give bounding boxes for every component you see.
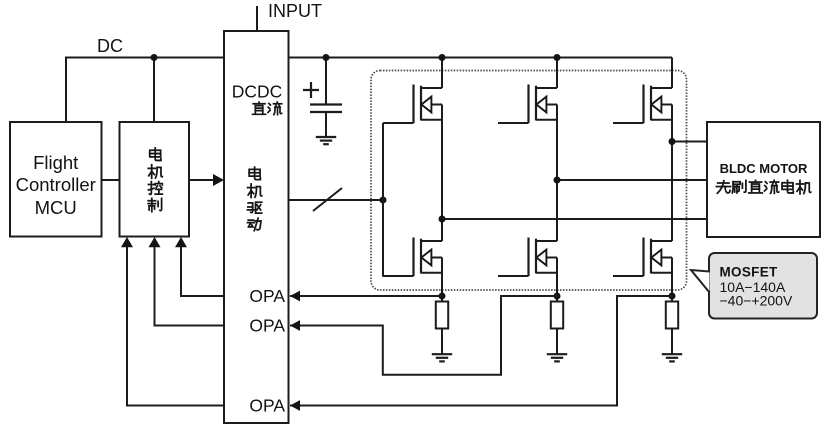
- wire drain lead bridge Q1: [441, 58, 443, 89]
- ground (R2): [547, 353, 567, 355]
- block DCDC / motor drive column: [224, 31, 289, 423]
- svg-text:DC: DC: [97, 36, 123, 56]
- transistor Q5 (low side): [536, 240, 557, 242]
- wire Q6 source to shunt: [671, 258, 673, 302]
- wire half-bridge midpoint Q2/Q5: [556, 105, 558, 242]
- wire DC rail left (net DC): [66, 58, 224, 123]
- wire R1 to ground: [441, 329, 443, 354]
- resistor R3 (shunt): [666, 302, 678, 329]
- dashed enclosure (MOSFET bridge outline): [371, 71, 687, 291]
- capacitor C1 plates: [310, 105, 342, 113]
- junction dot phase tap: [669, 138, 676, 145]
- wire OPA2 feedback to controller: [155, 239, 225, 326]
- wire gate drive bus from 电机驱动: [289, 199, 384, 201]
- wire phase output to motor: [672, 141, 707, 143]
- bus slash mark: [313, 188, 342, 211]
- junction dot current-sense node: [669, 293, 676, 300]
- block motor control 电机控制: [120, 122, 190, 237]
- svg-text:OPA: OPA: [249, 396, 285, 416]
- transistor Q2 (high side): [536, 87, 557, 89]
- svg-text:MCU: MCU: [35, 197, 77, 218]
- ground (R3): [662, 353, 682, 355]
- resistor R2 (shunt): [551, 302, 563, 329]
- wire OPA1 sense line: [290, 295, 442, 297]
- transistor Q3 (high side): [651, 87, 672, 89]
- svg-text:BLDC MOTOR: BLDC MOTOR: [720, 161, 808, 176]
- wire half-bridge midpoint Q3/Q6: [671, 105, 673, 242]
- capacitor C1 polarity +: [303, 82, 319, 98]
- svg-text:Flight: Flight: [33, 152, 78, 173]
- wire branch to motor-control block: [153, 58, 155, 123]
- junction dot current-sense node: [554, 293, 561, 300]
- ground (R1): [432, 353, 452, 355]
- wire OPA2 sense line: [290, 296, 557, 375]
- wire DC bus top rail right: [289, 57, 673, 59]
- wire OPA1 feedback to controller: [181, 239, 224, 296]
- resistor R1 (shunt): [436, 302, 448, 329]
- junction dot DC rail / Q1: [439, 54, 446, 61]
- wire R3 to ground: [671, 329, 673, 354]
- wire motor-control to DCDC drive (arrow): [189, 179, 222, 181]
- svg-text:MOSFET: MOSFET: [720, 265, 779, 280]
- wire R2 to ground: [556, 329, 558, 354]
- svg-text:−40−+200V: −40−+200V: [720, 293, 793, 309]
- transistor Q6 (low side): [651, 240, 672, 242]
- wire INPUT stub: [256, 6, 258, 31]
- transistor Q4 (low side): [421, 240, 442, 242]
- svg-text:INPUT: INPUT: [268, 1, 322, 21]
- callout MOSFET ratings: [709, 253, 817, 319]
- block BLDC MOTOR: [707, 122, 820, 237]
- svg-text:OPA: OPA: [249, 286, 285, 306]
- wire drain lead bridge Q2: [556, 58, 558, 89]
- junction dot gate bus: [380, 197, 387, 204]
- wire MCU to motor-control link: [102, 179, 120, 181]
- svg-text:Controller: Controller: [16, 174, 96, 195]
- svg-text:DCDC: DCDC: [232, 82, 283, 102]
- wire Q5 source to shunt: [556, 258, 558, 302]
- wire phase output to motor: [557, 179, 707, 181]
- wire half-bridge midpoint Q1/Q4: [441, 105, 443, 242]
- wire phase output to motor: [442, 218, 707, 220]
- junction dot DC/motor-control: [151, 54, 158, 61]
- wire Q4 source to shunt: [441, 258, 443, 302]
- wire capacitor to ground: [325, 112, 327, 137]
- junction dot cap/DC rail: [323, 54, 330, 61]
- junction dot DC rail / Q2: [554, 54, 561, 61]
- wire gate bus vertical: [382, 123, 384, 277]
- wire capacitor feed: [325, 58, 327, 105]
- block Flight Controller MCU: [10, 122, 102, 237]
- transistor Q1 (high side): [421, 87, 442, 89]
- junction dot current-sense node: [439, 293, 446, 300]
- wire OPA3 sense line: [290, 296, 672, 406]
- wire drain lead bridge Q3: [671, 58, 673, 89]
- svg-text:OPA: OPA: [249, 316, 285, 336]
- ground (capacitor): [316, 136, 336, 138]
- junction dot phase tap: [554, 177, 561, 184]
- wire OPA3 feedback to controller: [127, 239, 224, 406]
- junction dot phase tap: [439, 216, 446, 223]
